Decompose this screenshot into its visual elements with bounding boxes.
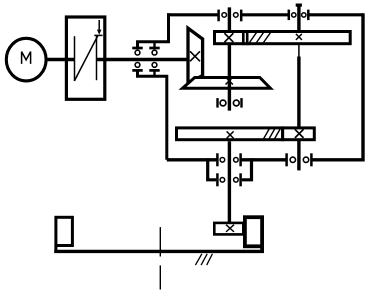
clutch A lower bar 2 — [149, 69, 159, 72]
right rail wire — [361, 13, 364, 161]
clutch A lower bar 1 — [132, 69, 142, 72]
bottom gear X — [226, 225, 234, 232]
gear block 2 spline hatch — [264, 128, 270, 139]
motor M — [6, 38, 46, 81]
gear block 1 x right — [296, 34, 302, 40]
clutch A lower roller 2 — [152, 63, 157, 68]
bracket left wire — [208, 158, 217, 180]
variator adjust arrow — [98, 20, 100, 30]
shaft II lower — [297, 140, 300, 171]
bearing B1 tick left — [216, 98, 218, 108]
clutch B row2 tick right — [239, 173, 242, 186]
centerline — [159, 227, 161, 256]
clutch A upper stem 2 — [153, 42, 155, 48]
table hatch — [195, 254, 202, 265]
bearing B2 tick right — [310, 153, 313, 166]
bevel gear vertical — [188, 28, 203, 83]
bearing B2 ball right — [303, 157, 308, 162]
bearing T2 ball right — [302, 13, 306, 17]
wire motor shaft segment b — [96, 58, 189, 61]
clutch B row1 tick right — [239, 153, 242, 166]
shaft II middle — [297, 57, 300, 128]
shaft II upper — [297, 4, 300, 32]
bearing T2 tick left — [288, 10, 291, 21]
clutch B row2 roller left — [220, 178, 225, 183]
gear block 1 X left — [224, 33, 233, 42]
clutch A lower roller 1 — [135, 63, 140, 68]
shaft II cap — [296, 4, 302, 7]
lower link rail wire — [167, 158, 218, 161]
bearing T2 tick right — [307, 10, 310, 21]
bracket right wire — [242, 158, 252, 180]
clutch A upper roller 2 — [152, 50, 157, 55]
bearing T1 tick left — [217, 10, 220, 22]
bearing B2 ball left — [290, 157, 295, 162]
wire motor shaft segment a — [47, 58, 76, 61]
bearing T1 ball left — [222, 13, 227, 18]
gear block 2 x left — [227, 131, 234, 138]
clutch A lower stem 2 — [153, 70, 155, 76]
variator disc left — [74, 36, 76, 81]
clutch B row1 roller left — [220, 158, 225, 163]
gear block 1 spline hatch — [250, 32, 258, 43]
bearing B1 tick right — [240, 98, 242, 108]
table left block — [56, 217, 73, 245]
bearing T2 ball left — [292, 13, 296, 17]
clutch A upper bar 1 — [132, 47, 142, 50]
top rail wire — [167, 13, 219, 16]
bearing T1 ball right — [234, 13, 239, 18]
variator box — [66, 17, 104, 99]
clutch B row1 tick left — [216, 153, 219, 166]
gear block 2 — [177, 128, 315, 140]
shaft II thin segment — [298, 45, 300, 57]
gear block 1 — [215, 32, 351, 44]
variator disc right — [96, 36, 98, 80]
clutch A upper bar 2 — [149, 47, 159, 50]
clutch A upper roller 1 — [135, 50, 140, 55]
clutch B row2 roller right — [234, 178, 239, 183]
worm housing block — [245, 217, 262, 246]
bearing B1 ball left — [220, 100, 226, 106]
clutch A upper link wire — [138, 13, 169, 48]
table rail — [54, 250, 264, 253]
bearing T1 tick right — [240, 10, 243, 22]
clutch B row2 tick left — [216, 173, 219, 186]
gear block 1 divider — [242, 30, 245, 45]
gear block 2 divider — [281, 126, 284, 141]
bevel gear horizontal — [183, 78, 271, 89]
gear block 2 X right — [295, 129, 304, 138]
bearing B2 tick left — [285, 153, 288, 166]
worm housing extension — [260, 245, 264, 253]
shaft I upper — [228, 7, 231, 110]
clutch A lower link wire down — [138, 70, 167, 159]
bottom gear — [214, 223, 243, 235]
shaft I lower — [228, 141, 231, 223]
clutch B row1 roller right — [234, 158, 239, 163]
bearing B1 ball right — [233, 100, 239, 106]
variator belt diagonal — [74, 35, 98, 81]
